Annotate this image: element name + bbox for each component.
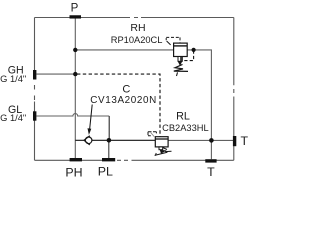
wire: RH outlet to right corner and down (187, 50, 211, 140)
RH valve stem (178, 57, 182, 62)
port T right bar (233, 136, 236, 146)
svg-text:CV13A2020N: CV13A2020N (90, 95, 157, 106)
svg-text:RL: RL (176, 110, 190, 122)
wire: check valve line (P line to RL valve) (75, 139, 155, 141)
svg-text:G 1/4": G 1/4" (0, 113, 26, 123)
port PH bar (70, 158, 82, 161)
svg-text:PH: PH (65, 165, 82, 179)
wire: PL vertical down to PL port (108, 140, 110, 158)
svg-text:CB2A33HL: CB2A33HL (162, 123, 209, 133)
svg-text:C: C (122, 83, 130, 95)
node: junction dot P/RP line (73, 48, 77, 52)
node: RH pilot dot (192, 48, 196, 52)
svg-text:RH: RH (130, 22, 145, 34)
port PL bar (102, 158, 115, 161)
svg-text:PL: PL (98, 165, 113, 179)
svg-text:T: T (241, 134, 249, 148)
node: junction dot tank line (209, 138, 214, 143)
wire: GL port line with hop over P line (37, 114, 110, 116)
RL valve stem and spring (159, 147, 163, 150)
port GL bar (33, 111, 36, 120)
enclosure boundary left edge (34, 18, 36, 161)
enclosure boundary bottom edge (35, 159, 234, 161)
wire: GH port line (37, 73, 76, 75)
node: junction dot GL/check line (107, 138, 112, 143)
enclosure boundary top edge (35, 18, 234, 161)
port T bottom bar (205, 159, 216, 162)
check valve CV13A2020N (84, 136, 92, 145)
wire: P to RH valve inlet (75, 49, 173, 51)
RL adjustment dashed box (148, 132, 156, 136)
RH adjustment dashed box (166, 37, 180, 43)
pilot line (dashed) GH junction to RL valve top (77, 74, 160, 137)
wire: down to T bottom port (210, 140, 212, 159)
relief valve RH body (174, 43, 188, 56)
enclosure boundary right edge (233, 18, 235, 161)
wire: P vertical line from port P down to PH (74, 19, 76, 159)
RH pilot dashed line (183, 51, 194, 61)
svg-text:RP10A20CL: RP10A20CL (111, 35, 163, 45)
relief valve RL body (155, 137, 168, 147)
RH spring (174, 64, 188, 71)
port P bar (70, 15, 82, 18)
svg-text:P: P (71, 3, 79, 15)
port GH bar (33, 70, 36, 80)
wire: tank line RL outlet to T right port (168, 139, 233, 141)
svg-text:T: T (207, 165, 215, 179)
check valve label arrow (90, 105, 93, 131)
wire: GL corner down to junction (108, 116, 110, 140)
svg-text:G 1/4": G 1/4" (0, 74, 26, 84)
node: junction dot P/GH pilot (73, 72, 77, 76)
RH arrowhead (178, 61, 183, 66)
